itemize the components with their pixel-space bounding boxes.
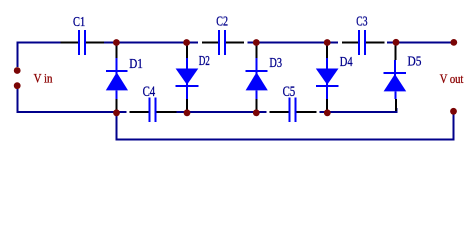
node B3 mid bus junction D3 xyxy=(253,109,260,116)
svg-text:V in: V in xyxy=(34,71,54,85)
svg-text:C4: C4 xyxy=(143,84,156,100)
node Vin- terminal xyxy=(14,82,21,89)
svg-text:D1: D1 xyxy=(129,56,143,71)
capacitor C1 xyxy=(79,30,85,55)
svg-text:C3: C3 xyxy=(356,14,367,29)
node B4 mid bus junction D4 xyxy=(324,109,331,116)
node Vin+ terminal xyxy=(14,67,21,74)
node N3 top junction D3 xyxy=(253,39,260,46)
capacitor C4 xyxy=(150,97,156,122)
capacitor C3 xyxy=(359,30,365,55)
wire input top: left vertical up to top rail, to C1 lead xyxy=(17,42,60,67)
wire top rail node5 to output terminal xyxy=(387,41,452,43)
wire C4 left black lead xyxy=(129,111,148,113)
wire C2 right black lead xyxy=(226,41,245,43)
capacitor C2 xyxy=(219,30,225,55)
node N2 top junction D2 xyxy=(183,39,190,46)
node Vout+ terminal xyxy=(450,39,457,46)
svg-text:D3: D3 xyxy=(269,55,282,70)
diode D1 xyxy=(106,46,128,111)
node B1 mid bus junction D1 xyxy=(113,109,120,116)
wire bottom bus from node b1 to output lower terminal xyxy=(117,114,454,140)
capacitor C5 xyxy=(290,97,296,122)
wire C4 right black lead xyxy=(157,111,177,113)
wire top rail node1 to node2 xyxy=(104,41,198,43)
svg-text:C2: C2 xyxy=(216,14,228,29)
wire C3 right black lead xyxy=(366,41,385,43)
wire C5 left black lead xyxy=(270,111,289,113)
wire top rail node3 to node4 xyxy=(247,41,338,43)
node Vout- terminal xyxy=(450,108,457,115)
svg-text:C1: C1 xyxy=(73,14,85,29)
svg-text:D2: D2 xyxy=(199,53,210,68)
wire mid bus node b4 to D5 bottom corner xyxy=(320,108,397,112)
diode D3 xyxy=(246,46,268,111)
wire C5 right black lead xyxy=(297,111,317,113)
node B2 mid bus junction D2 xyxy=(184,109,191,116)
wire C1 left black lead xyxy=(61,41,79,43)
svg-text:D5: D5 xyxy=(408,53,422,68)
diode D2 xyxy=(176,46,199,111)
svg-text:D4: D4 xyxy=(340,54,353,69)
node N1 top junction D1 xyxy=(113,39,120,46)
node N5 top junction D5 xyxy=(393,39,400,46)
wire input bottom: left vertical down to mid bus, to C4 lead xyxy=(17,89,126,112)
diode D4 xyxy=(316,46,339,111)
wire C2 left black lead xyxy=(202,41,218,43)
svg-text:C5: C5 xyxy=(283,84,296,100)
svg-text:V out: V out xyxy=(440,72,464,86)
diode D5 xyxy=(383,46,406,112)
wire C1 right black lead xyxy=(86,41,104,43)
wire C3 left black lead xyxy=(342,41,358,43)
node N4 top junction D4 xyxy=(324,39,331,46)
wire mid bus node b2 to node b3 xyxy=(177,111,267,113)
